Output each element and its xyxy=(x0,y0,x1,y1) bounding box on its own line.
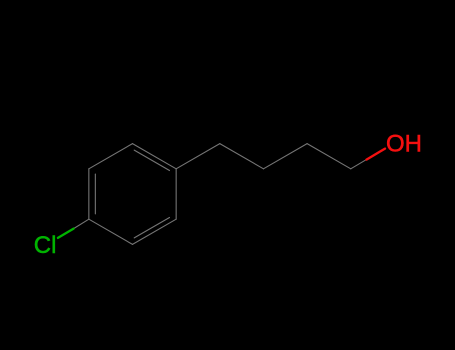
svg-text:OH: OH xyxy=(386,130,422,157)
svg-text:Cl: Cl xyxy=(34,232,57,259)
